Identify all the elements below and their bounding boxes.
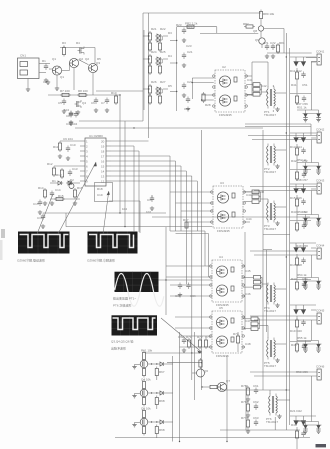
svg-text:14: 14 [101,170,105,174]
junction [148,58,149,59]
svg-text:17: 17 [101,155,105,159]
ground PT5 [275,358,279,362]
transformer PT4 [264,283,275,311]
svg-text:D13 D14: D13 D14 [290,145,302,149]
svg-text:R44: R44 [291,277,297,281]
wire [244,232,246,330]
callout arrow to pin11 [103,191,140,234]
capacitor CT2 [271,44,275,59]
svg-text:R53 1k: R53 1k [297,210,307,214]
svg-text:C9 104: C9 104 [63,137,73,141]
capacitor C11 [74,111,78,118]
balance diodes stage1 [297,106,322,122]
junction [119,212,120,213]
connector CON6 [250,365,325,381]
wire [124,121,126,227]
waveform box W4 [111,315,157,350]
svg-text:C7: C7 [101,101,105,105]
resistor R32 [204,338,207,349]
svg-text:R25: R25 [160,50,166,54]
svg-text:R27: R27 [160,80,166,84]
capacitor C6 [94,98,98,113]
svg-text:R80 10k: R80 10k [263,12,275,16]
junction [201,362,202,363]
svg-text:D21 D22: D21 D22 [290,409,302,413]
resistor R33 [236,332,239,352]
wire PT5 sec [275,343,286,345]
svg-text:Q3: Q3 [96,61,100,65]
svg-text:R54 1k: R54 1k [297,273,307,277]
ground GG2 [246,413,250,417]
junction [286,256,287,257]
wire [201,130,203,390]
resistor R30 [187,338,190,349]
ground PT1 [275,107,279,111]
balance diodes stage3 [297,210,322,226]
module U4 [210,255,245,302]
wire [115,437,310,439]
module M4 left wires [175,317,245,347]
wire top frame vertical left [142,13,144,121]
svg-text:R68: R68 [159,399,165,403]
resistor R10 [114,94,117,105]
junction [148,35,149,36]
wire [133,146,135,232]
svg-text:TM-0917: TM-0917 [264,113,276,117]
resistor RG1 [246,386,249,397]
svg-text:D4: D4 [168,54,172,58]
svg-text:D19 D20: D19 D20 [290,329,302,333]
svg-text:C20: C20 [187,25,193,29]
module U3 [211,181,246,228]
resistor RS1b [295,94,298,105]
svg-text:C13: C13 [72,167,78,171]
svg-text:C5: C5 [58,101,62,105]
diode D10 [50,181,63,185]
wire [79,120,143,122]
svg-text:TM-0917: TM-0917 [264,170,276,174]
transistor Q6b [192,358,209,377]
wire [262,130,264,390]
svg-text:C10: C10 [70,143,76,147]
svg-text:R75: R75 [241,384,247,388]
svg-text:R17: R17 [183,218,189,222]
wire [204,231,206,266]
wire grid left [245,386,247,430]
svg-text:R1: R1 [42,59,46,63]
wire [96,90,143,92]
svg-text:R26: R26 [151,80,157,84]
wire [111,145,134,147]
junction [179,441,180,442]
wire [185,171,187,284]
junction [124,226,125,227]
resistor R13 [60,168,63,179]
IC surroundings: capacitor C10 [69,111,73,125]
svg-text:C6: C6 [91,101,95,105]
wire [145,352,202,354]
svg-text:R74: R74 [233,332,239,336]
svg-text:R49 C58: R49 C58 [296,244,308,248]
svg-text:U4: U4 [219,255,223,259]
callout arrow module [161,318,202,354]
capacitor C17 [150,195,154,210]
svg-text:TM-0917: TM-0917 [264,364,276,368]
capacitor CS1b [302,96,306,103]
wire [172,356,174,442]
svg-text:C22: C22 [187,80,193,84]
wire [119,95,121,213]
svg-text:C71: C71 [263,41,269,45]
resistor R15 [54,197,65,200]
svg-text:R82: R82 [243,22,249,26]
output stage cluster 2 [290,133,316,181]
svg-text:C2: C2 [43,80,47,84]
capacitor C12 [66,146,70,161]
resistor R7 [60,93,71,96]
capacitor C20 [182,28,186,43]
resistor R12 [52,166,80,177]
svg-text:CON5: CON5 [316,309,325,313]
svg-text:Q8: Q8 [253,29,257,33]
svg-text:R24: R24 [151,50,157,54]
balance diodes stage4 [297,273,322,289]
transistor Q5b [69,184,74,189]
resistor R20 [185,25,196,28]
capacitor C14 [50,191,54,206]
waveform box W3 [113,272,164,308]
ground G3 [26,87,30,91]
svg-text:TM-0917: TM-0917 [264,309,276,313]
wire [159,279,213,281]
wire [208,234,210,278]
connector CON3 [250,179,325,195]
IC U1 OZ960 [80,134,111,186]
svg-text:R10: R10 [111,91,117,95]
svg-text:16: 16 [101,160,105,164]
junction [262,191,263,192]
svg-text:Q9: Q9 [255,38,259,42]
ground PT2 [275,164,279,168]
connector CON4 [250,244,325,260]
junction [286,56,287,57]
svg-text:FDS4935: FDS4935 [216,354,229,358]
svg-text:R5: R5 [97,57,101,61]
svg-text:R43: R43 [291,210,297,214]
transistor QT2 [259,38,265,44]
svg-text:C15: C15 [33,202,39,206]
balance diodes stage6 [297,422,322,434]
wire top right [261,31,312,53]
wire PT4 sec [275,288,286,290]
connector CON1 [306,50,325,66]
output stage cluster 3 [290,184,316,232]
svg-text:R48 C57: R48 C57 [296,178,308,182]
svg-text:Q6: Q6 [204,369,208,373]
balance diodes stage5 [297,336,322,352]
svg-text:C47: C47 [245,319,251,323]
svg-text:Q2: Q2 [85,57,89,61]
svg-text:R45: R45 [291,343,297,347]
svg-text:R71: R71 [186,335,192,339]
wire [169,156,171,231]
svg-text:CN1: CN1 [20,54,26,58]
FET stage Q5 [132,407,172,439]
svg-text:R68: R68 [159,428,165,432]
svg-text:R13: R13 [56,173,62,177]
svg-text:12: 12 [101,180,105,184]
wire [111,150,139,152]
svg-text:TM-0917: TM-0917 [264,227,276,231]
capacitor CT1 [265,44,269,59]
resonant capacitor CR5 [243,276,268,289]
svg-text:CON2: CON2 [316,128,325,132]
capacitor C13 [68,170,72,185]
output stage cluster 5 [290,305,316,353]
resistor RG3 [246,418,249,429]
bottom resistor grid [246,386,258,433]
svg-text:PT6 次级波形: PT6 次级波形 [113,303,131,308]
waveform box W1 [17,232,70,263]
svg-text:C16: C16 [37,216,43,220]
top right cluster: resistor RT1 [259,10,262,26]
svg-text:FDS4935: FDS4935 [216,303,229,307]
svg-text:PR2 2.2k: PR2 2.2k [185,22,198,26]
wire top frame horizontal [143,12,261,14]
wire [266,250,268,332]
drive group B [143,54,168,75]
module M2 left wires [170,192,263,222]
svg-text:C41: C41 [247,78,253,82]
capacitor CG2 [254,404,258,411]
svg-text:R50 C59: R50 C59 [296,370,308,374]
svg-text:C17: C17 [147,198,153,202]
wire [111,165,181,167]
svg-text:R55 1k: R55 1k [297,336,307,340]
svg-text:D3: D3 [168,31,172,35]
capacitor C24 [184,97,190,112]
svg-text:FDS4935: FDS4935 [217,229,230,233]
wire PT2 sec [275,149,286,151]
svg-text:D17 D18: D17 D18 [290,263,302,267]
capacitor CG3 [254,420,258,427]
diode D11 [66,181,80,185]
wire [263,233,290,235]
svg-text:U2: U2 [222,65,226,69]
module U5 [210,306,245,353]
transistor Q101 [78,47,85,55]
wire [65,213,67,227]
junction [191,352,192,353]
svg-text:R76: R76 [241,400,247,404]
svg-text:C24: C24 [184,107,190,111]
diode DS1b [301,62,306,67]
transistor Q7 [201,379,230,392]
svg-text:R15: R15 [58,194,64,198]
svg-text:C44: C44 [246,217,252,221]
svg-text:C62: C62 [253,400,259,404]
svg-text:R41: R41 [291,83,297,87]
svg-text:Q4 10k: Q4 10k [141,378,151,382]
transformer PT3 [264,201,275,229]
transformer ground symbols and secondary wires [275,93,290,418]
svg-text:R16: R16 [77,186,83,190]
transformer PT1 [264,87,275,115]
resistor R17 [185,222,188,228]
transformer PT6 [266,394,277,422]
output stage cluster 1 [290,57,316,105]
svg-text:15: 15 [101,165,105,169]
svg-text:C14: C14 [55,188,61,192]
svg-text:R42: R42 [291,159,297,163]
module M1 left wires [170,27,273,112]
svg-text:CON3: CON3 [316,179,325,183]
svg-text:D2: D2 [70,178,74,182]
junction [286,132,287,133]
capacitor C33 [175,283,182,299]
wire vertical bus bundle [120,13,290,442]
junction [286,389,287,390]
svg-text:13: 13 [101,175,105,179]
svg-text:R11: R11 [53,145,59,149]
svg-text:R67: R67 [159,370,165,374]
resistor R14 [43,188,47,205]
FET stage Q4 [132,378,172,410]
wire mid rail [48,94,120,96]
svg-text:20: 20 [101,140,105,144]
svg-text:19: 19 [101,145,105,149]
svg-text:R81: R81 [279,41,285,45]
svg-text:R61 10k: R61 10k [141,349,153,353]
svg-text:C43: C43 [246,193,252,197]
capacitor C15 [38,200,42,215]
junction [133,127,134,128]
wire PT6 sec [277,399,290,401]
wire [143,30,145,110]
wire [191,176,193,380]
wire [176,233,209,235]
wire horizontal bus lines [43,91,310,438]
connector CON5 [250,309,325,325]
svg-text:出脉冲波形: 出脉冲波形 [111,346,126,351]
svg-text:R77: R77 [241,416,247,420]
svg-text:CON6: CON6 [316,365,325,369]
svg-text:R8 100: R8 100 [78,89,88,93]
svg-text:D1: D1 [52,179,56,183]
wire [196,181,198,231]
svg-text:OZ960⑰脚,驱动波形: OZ960⑰脚,驱动波形 [17,258,45,263]
svg-text:U1 OZ960: U1 OZ960 [89,134,103,138]
callout arrow to pin17 [37,162,97,234]
svg-text:C21: C21 [187,50,193,54]
svg-text:102: 102 [146,210,151,214]
svg-text:D11 D12: D11 D12 [290,69,302,73]
resistor R28 [202,92,211,107]
capacitor C1 [44,64,48,83]
wire [263,249,272,251]
transistor Q4 [75,100,82,114]
wire [111,160,176,162]
svg-text:输出变压器 PT1~: 输出变压器 PT1~ [113,296,136,301]
transistor Q2 [69,57,83,68]
wire supply top-left [57,48,95,96]
transformer PT2 [264,144,275,172]
FET stage Q3 [132,349,172,381]
svg-text:R14: R14 [38,186,44,190]
svg-text:R18: R18 [97,187,103,191]
wire [194,332,196,400]
svg-text:C45: C45 [245,269,251,273]
drive group C [143,84,168,105]
svg-text:104: 104 [64,108,69,112]
ground G1 [55,86,59,90]
watermark box [316,444,327,447]
resistor R31 [198,338,201,349]
svg-text:R12: R12 [47,162,53,166]
svg-text:D5: D5 [168,84,172,88]
wire [175,161,177,231]
svg-text:CON4: CON4 [316,244,325,248]
svg-text:C72: C72 [270,41,276,45]
wire [66,226,212,228]
svg-text:C61: C61 [253,384,259,388]
wire [148,13,150,138]
ground G2 [46,80,50,84]
svg-text:Q5 10k: Q5 10k [141,407,151,411]
scan artifact left edge [1,229,5,238]
svg-text:18: 18 [101,150,105,154]
svg-text:C11 104: C11 104 [66,122,77,126]
wire [180,166,182,231]
wire [170,230,205,232]
wire [226,356,228,442]
junction [148,88,149,89]
svg-text:R51 1k: R51 1k [297,106,307,110]
connector CN1 [18,54,51,88]
svg-text:C23: C23 [186,44,192,48]
resonant capacitor CR1 [246,83,268,96]
svg-text:CON1: CON1 [316,50,325,54]
resistor R8 [77,93,88,96]
junction [226,441,227,442]
wire [111,155,170,157]
junction [165,279,166,280]
wire [111,175,192,177]
capacitor C16 [41,214,45,229]
wire [50,198,80,200]
wire lamp return verticals [311,62,313,422]
diode DS1a [294,62,299,67]
resonant capacitor CR3 [244,190,268,203]
svg-text:104: 104 [122,207,127,211]
wire [220,429,300,431]
shield box below IC [95,183,113,202]
wire [111,140,149,142]
wire [75,127,263,129]
wire [289,48,291,425]
waveform box W2 [87,232,138,263]
wire [111,170,186,172]
output stage cluster 6 [290,416,316,449]
svg-text:C42: C42 [261,84,267,88]
transformer PT5 [264,338,275,366]
ground PT3 [275,221,279,225]
drive group A [143,31,168,52]
IC pin numbers [86,140,105,184]
transistor Q1 [52,66,64,79]
svg-text:R72: R72 [197,335,203,339]
capacitor C22 [182,83,186,98]
